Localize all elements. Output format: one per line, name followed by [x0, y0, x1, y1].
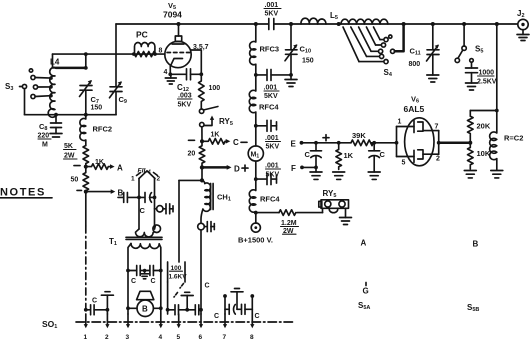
svg-text:2: 2 — [436, 156, 440, 163]
ground pins56 — [181, 292, 193, 310]
capacitor pins56 right — [187, 283, 209, 315]
svg-text:B: B — [473, 240, 479, 249]
svg-text:7: 7 — [435, 124, 439, 131]
switch RY5 contacts — [199, 107, 232, 142]
node C10 top — [289, 22, 293, 26]
node C11 top — [431, 22, 435, 26]
wire cathode lead — [169, 66, 171, 74]
node meter top — [254, 124, 258, 128]
capacitor secondary left C — [126, 266, 145, 286]
capacitor .001 5KV coupling — [256, 69, 291, 100]
wire grid line — [53, 53, 165, 55]
terminal B+1500V — [238, 213, 273, 245]
capacitor pins56 left — [166, 305, 189, 315]
resistor 1K to A — [86, 159, 123, 173]
capacitor pins78 left — [214, 294, 235, 320]
capacitor C input — [305, 141, 323, 179]
terminal F — [291, 164, 316, 173]
pin 2 — [105, 314, 110, 341]
wire tank bottom — [25, 114, 117, 116]
inductor RFC2 — [80, 115, 112, 146]
inductor L5 section 1 — [301, 18, 326, 24]
capacitor C10 150 variable — [285, 24, 314, 87]
tube V5 7094 — [159, 1, 209, 109]
capacitor fil left — [118, 192, 141, 202]
meter M1 — [241, 126, 263, 179]
capacitor 100 1.6KV label box — [168, 262, 188, 282]
capacitor pin1 pin2 C — [84, 298, 109, 315]
node L5 tap — [337, 22, 341, 26]
pin 7 — [223, 314, 228, 341]
svg-text:L4: L4 — [50, 58, 60, 67]
svg-text:B+1500 V.: B+1500 V. — [238, 236, 273, 245]
wire to B arrow — [86, 189, 124, 198]
switch S4 tap fan — [343, 26, 404, 78]
capacitor secondary right C — [145, 266, 163, 286]
capacitor pins78 right — [237, 294, 260, 320]
pin 4 — [159, 314, 163, 341]
node RFC3 bottom — [254, 73, 258, 77]
pin 3 — [126, 314, 131, 341]
svg-text:RFC4: RFC4 — [259, 103, 279, 112]
node S4 common — [402, 22, 406, 26]
pin 1 — [84, 314, 88, 341]
svg-text:5: 5 — [402, 160, 406, 167]
svg-text:2: 2 — [105, 334, 109, 341]
node V5 plate — [177, 22, 181, 26]
svg-text:C: C — [255, 313, 260, 320]
node bias A — [84, 165, 88, 169]
svg-text:150: 150 — [91, 105, 103, 112]
resistor 1K to C — [202, 132, 239, 148]
label NOTES — [0, 187, 52, 199]
ground cathode — [170, 74, 172, 78]
wire E to 39K — [316, 142, 351, 144]
node B plus — [254, 211, 258, 215]
svg-text:2: 2 — [157, 176, 161, 183]
svg-text:A: A — [117, 164, 123, 173]
node bias B — [84, 190, 88, 194]
inductor RFC4 upper — [249, 75, 279, 126]
svg-text:2.5KV: 2.5KV — [477, 79, 497, 86]
capacitor C11 800 variable — [409, 24, 440, 82]
capacitor .001 5KV plate blocking — [264, 2, 281, 30]
svg-text:800: 800 — [409, 61, 421, 68]
svg-text:G: G — [363, 287, 369, 296]
capacitor C9 neutralizing — [110, 24, 127, 115]
pin 6 — [199, 314, 204, 341]
svg-text:8: 8 — [250, 334, 254, 341]
svg-text:M: M — [42, 142, 48, 149]
wire box edge down to socket — [167, 282, 169, 314]
resistor 1K shunt — [333, 141, 354, 179]
svg-text:5KV: 5KV — [178, 102, 192, 109]
blower motor B — [126, 291, 163, 316]
diode bottom — [397, 156, 415, 158]
svg-text:1: 1 — [84, 334, 88, 341]
svg-text:C: C — [92, 298, 97, 305]
node RFC3 top — [254, 22, 258, 26]
svg-text:RFC2: RFC2 — [93, 125, 113, 134]
svg-text:F: F — [291, 164, 296, 173]
wire plate bus left — [116, 23, 268, 25]
transformer T1 — [109, 225, 162, 314]
svg-text:1.6KV: 1.6KV — [169, 274, 188, 281]
wire dashes misc pins56 — [180, 284, 184, 289]
relay RY5 coil — [319, 189, 352, 225]
svg-text:E: E — [291, 140, 297, 149]
svg-text:5KV: 5KV — [265, 11, 279, 18]
ground pin2 — [101, 292, 113, 314]
svg-text:4: 4 — [159, 334, 163, 341]
wire heavy top of tank — [56, 67, 86, 70]
capacitor .001 5KV meter bottom — [256, 163, 281, 185]
capacitor C after 39K — [368, 141, 385, 179]
svg-text:B: B — [142, 305, 148, 314]
svg-text:3: 3 — [126, 334, 130, 341]
wire plate bus right — [274, 23, 518, 25]
capacitor C8 220M — [38, 115, 63, 149]
terminal E — [291, 135, 330, 149]
svg-text:5KV: 5KV — [266, 144, 280, 151]
jack J2 — [517, 9, 529, 41]
resistor 1.2M 2W — [256, 210, 323, 235]
ground secondary center — [141, 269, 149, 279]
inductor RFC3 — [250, 24, 279, 75]
label G control — [363, 283, 369, 296]
svg-text:C: C — [305, 150, 311, 159]
svg-text:B: B — [118, 189, 124, 198]
node grid tank top — [84, 52, 88, 56]
choke CH1 — [201, 180, 231, 223]
svg-text:6AL5: 6AL5 — [404, 104, 425, 114]
svg-text:PC: PC — [136, 30, 148, 40]
wire pins 357 stub — [191, 50, 202, 74]
diode top — [397, 126, 415, 128]
svg-text:10K: 10K — [477, 149, 491, 158]
svg-text:50: 50 — [71, 177, 79, 184]
resistor 5K 2W — [64, 143, 89, 169]
filament FIL4 — [131, 168, 161, 230]
svg-text:C: C — [380, 150, 386, 159]
svg-text:1K: 1K — [95, 159, 104, 166]
wire heavy D line — [200, 165, 240, 174]
capacitor CH1 feedthrough — [198, 222, 215, 232]
pin 8 — [250, 314, 254, 341]
wire bias line down to pin1 — [85, 192, 87, 226]
ground pins78 — [231, 289, 243, 310]
capacitor C12 .003 5KV — [170, 73, 185, 75]
node divider center — [468, 141, 472, 145]
capacitor C7 150 variable — [80, 80, 103, 115]
svg-text:1: 1 — [398, 119, 402, 126]
switch S3 — [5, 69, 53, 115]
resistor 10K — [464, 143, 491, 178]
parasitic choke PC — [132, 30, 157, 57]
svg-text:M1: M1 — [251, 152, 260, 160]
resistor 100 grid leak — [199, 74, 221, 108]
tube V6 6AL5 — [395, 95, 471, 167]
resistor 20 — [188, 139, 205, 166]
node meter bottom — [254, 177, 258, 181]
svg-text:C: C — [233, 138, 239, 147]
svg-text:A: A — [361, 239, 367, 248]
svg-text:5KV: 5KV — [264, 93, 278, 100]
wire S4 arm to bus — [391, 49, 395, 53]
svg-text:39K: 39K — [352, 131, 366, 140]
resistor 39K series — [351, 131, 396, 146]
switch S5 — [455, 24, 483, 63]
node RFC2 right top — [495, 22, 499, 26]
svg-text:1: 1 — [131, 176, 135, 183]
svg-text:1K: 1K — [211, 132, 220, 139]
wire junction to CH1 — [179, 167, 204, 262]
socket SO1 — [42, 319, 295, 330]
capacitor .001 5KV meter top — [256, 120, 281, 150]
svg-text:NOTES: NOTES — [0, 187, 46, 199]
svg-text:7094: 7094 — [163, 10, 182, 20]
svg-text:7: 7 — [223, 334, 227, 341]
svg-text:C: C — [214, 313, 219, 320]
inductor L4 — [48, 58, 60, 118]
wire right column from bus — [496, 24, 498, 111]
capacitor fil center — [139, 192, 156, 215]
resistor 20K — [468, 111, 497, 143]
node S5 top — [462, 22, 466, 26]
svg-text:C: C — [140, 206, 146, 215]
svg-text:20K: 20K — [477, 122, 491, 131]
inductor RFC2 output — [490, 111, 524, 178]
resistor 50 — [71, 167, 89, 193]
pin 5 — [177, 314, 181, 341]
svg-text:4: 4 — [164, 69, 168, 76]
svg-text:5KV: 5KV — [266, 172, 280, 179]
svg-text:RFC3: RFC3 — [260, 45, 280, 54]
svg-text:C: C — [205, 283, 210, 290]
svg-text:1K: 1K — [344, 151, 354, 160]
svg-text:R=C2: R=C2 — [504, 134, 523, 143]
svg-text:D: D — [234, 165, 240, 174]
svg-text:20: 20 — [188, 151, 196, 158]
wire elbow to L4 — [53, 54, 57, 68]
svg-text:C: C — [131, 278, 136, 285]
capacitor 1000 2.5KV — [466, 59, 497, 90]
svg-text:100: 100 — [209, 85, 221, 92]
svg-text:C: C — [151, 278, 156, 285]
svg-text:5: 5 — [177, 334, 181, 341]
inductor L5 section 2 tapped — [341, 19, 388, 24]
svg-text:RFC4: RFC4 — [260, 195, 280, 204]
svg-text:6: 6 — [199, 334, 203, 341]
inductor RFC4 lower — [249, 179, 280, 213]
svg-text:150: 150 — [302, 58, 314, 65]
wire CH1 down to pin6 — [200, 230, 202, 314]
capacitor fil right feedthrough — [155, 204, 174, 214]
